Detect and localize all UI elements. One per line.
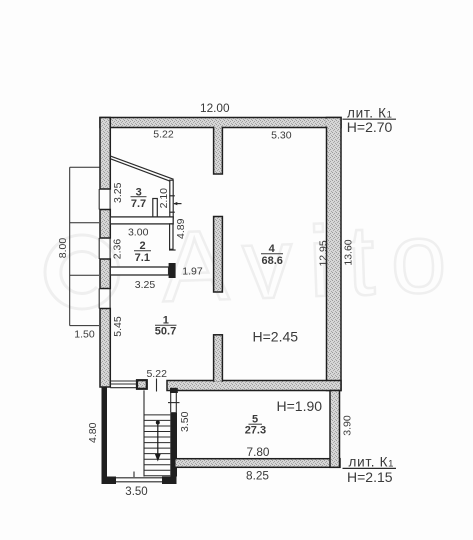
svg-text:H=2.70: H=2.70	[347, 119, 393, 135]
right wall	[327, 118, 342, 391]
bottom pier	[137, 380, 147, 389]
wall joint patches	[101, 119, 340, 467]
svg-text:7.1: 7.1	[135, 252, 150, 264]
bottom wall main	[167, 381, 341, 391]
svg-text:3.25: 3.25	[135, 279, 156, 291]
top wall	[100, 118, 341, 128]
left wall segment 1	[100, 118, 110, 190]
pier top of stairs wall	[170, 388, 178, 393]
svg-text:H=2.45: H=2.45	[253, 329, 299, 345]
svg-text:68.6: 68.6	[261, 255, 282, 267]
annex bottom window	[116, 478, 162, 482]
svg-text:2.10: 2.10	[158, 188, 170, 209]
stairs arrow	[156, 421, 160, 425]
svg-text:5.22: 5.22	[153, 128, 174, 140]
svg-text:H=2.15: H=2.15	[347, 469, 393, 485]
left wall segment 4	[100, 309, 110, 388]
svg-text:4.80: 4.80	[87, 422, 99, 443]
underline lit K1 bottom	[343, 467, 397, 469]
svg-text:3.00: 3.00	[128, 226, 149, 238]
annex left wall	[102, 387, 108, 484]
ticks 2.10	[169, 196, 181, 212]
annex bottom wall right part	[162, 477, 177, 485]
annex right wall	[330, 391, 340, 468]
arrowhead 2.10	[173, 202, 177, 205]
divider rooms 2/1	[110, 267, 168, 275]
svg-text:3.50: 3.50	[125, 486, 147, 498]
svg-text:2.36: 2.36	[111, 239, 123, 260]
svg-text:12.95: 12.95	[318, 240, 330, 266]
window W2 left	[99, 238, 110, 259]
svg-text:H=1.90: H=1.90	[277, 398, 323, 414]
svg-text:1.97: 1.97	[182, 265, 203, 277]
window W1 left	[99, 189, 110, 210]
svg-text:27.3: 27.3	[245, 425, 266, 437]
diagonal wall room 3	[111, 156, 174, 182]
annex bottom wall left part	[102, 477, 117, 485]
svg-text:12.00: 12.00	[200, 101, 230, 115]
svg-text:5.30: 5.30	[271, 129, 292, 141]
stairs right wall	[170, 412, 177, 476]
svg-text:Avito: Avito	[160, 201, 464, 323]
svg-text:7.80: 7.80	[247, 445, 270, 459]
svg-text:3.90: 3.90	[341, 415, 353, 436]
svg-text:4.89: 4.89	[175, 218, 187, 239]
stair treads	[144, 415, 170, 476]
window W3 left	[99, 289, 110, 309]
svg-text:3.50: 3.50	[179, 411, 191, 432]
svg-text:8.25: 8.25	[246, 469, 269, 483]
tick 5.22 bottom	[156, 379, 158, 392]
left wall segment 3	[100, 259, 110, 289]
interior wall A segment 3	[214, 335, 223, 381]
door jamb room 2	[169, 249, 176, 251]
svg-text:7.7: 7.7	[131, 198, 146, 210]
svg-text:3.25: 3.25	[112, 182, 124, 203]
room 2 right wall	[170, 224, 173, 249]
stairs left line	[143, 390, 145, 476]
room 3 right wall	[170, 180, 173, 218]
svg-text:лит. К1: лит. К1	[349, 454, 395, 469]
svg-text:13.60: 13.60	[343, 239, 355, 265]
divider rooms 3/2	[110, 217, 173, 224]
interior wall A segment 2	[214, 217, 223, 293]
door stairs-room5	[168, 393, 180, 412]
bottom window room1	[110, 381, 136, 388]
svg-text:50.7: 50.7	[155, 326, 176, 338]
pier room2/1	[169, 263, 176, 278]
room 5 bottom wall	[175, 459, 340, 468]
left wall segment 2	[100, 210, 110, 239]
svg-text:1.50: 1.50	[74, 328, 95, 340]
svg-text:5.22: 5.22	[146, 368, 167, 380]
svg-text:5.45: 5.45	[112, 316, 124, 337]
closet partition	[153, 199, 158, 222]
watermark copyright circle	[45, 235, 119, 309]
interior wall A segment 1	[214, 128, 223, 175]
svg-text:8.00: 8.00	[57, 238, 69, 259]
underline lit K1 top	[343, 118, 397, 120]
left bay dimension line 8.00	[70, 167, 100, 325]
tick 3.50 bottom	[133, 472, 135, 478]
